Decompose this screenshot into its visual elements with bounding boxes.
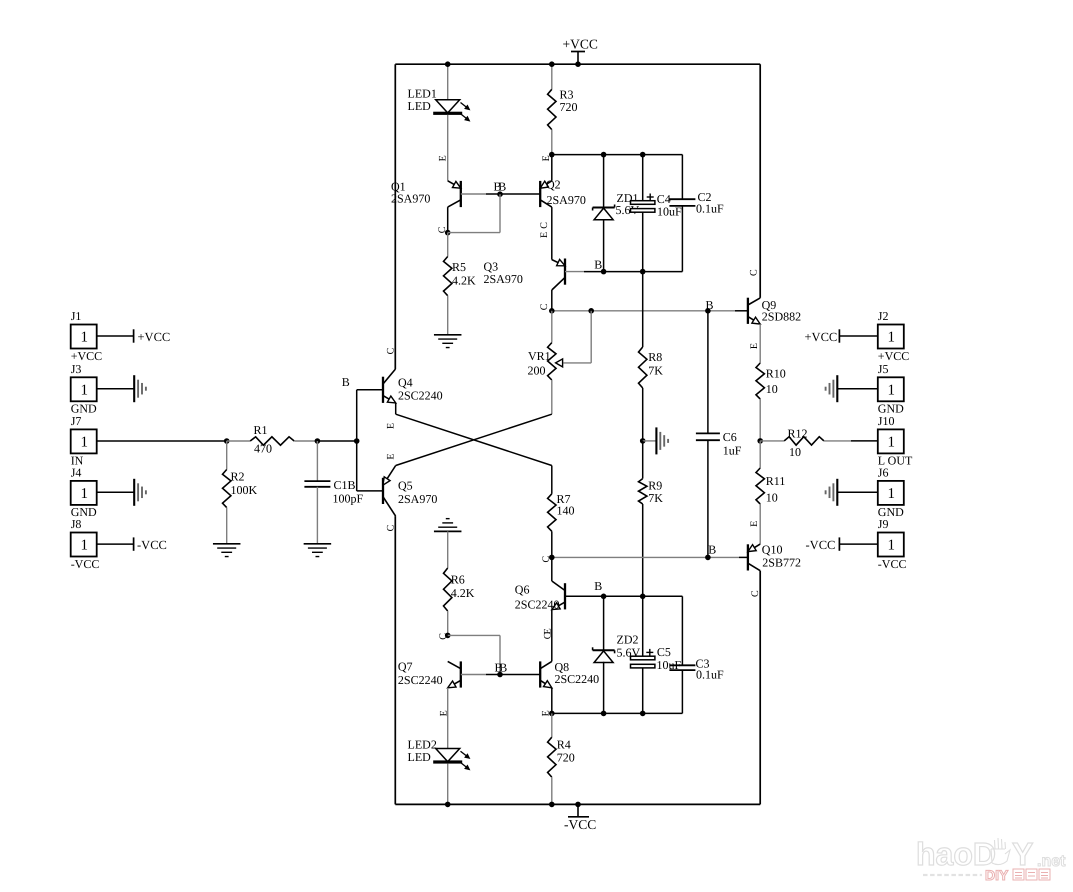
svg-text:R2: R2 <box>231 470 245 484</box>
node ZD2 bottom <box>601 711 607 717</box>
connector J8 <box>71 517 100 571</box>
LED LED2 <box>433 749 469 770</box>
svg-text:1: 1 <box>888 434 896 450</box>
transistor Q2 2SA970 <box>540 181 552 207</box>
node Q3 collector / VR1 top <box>549 308 555 314</box>
wire R6 to Q7 collector node <box>447 611 449 635</box>
svg-text:2SC2240: 2SC2240 <box>515 598 560 612</box>
svg-text:Q5: Q5 <box>398 479 413 493</box>
wire node to VR1 <box>551 311 553 343</box>
wire output node to R12 <box>760 440 784 442</box>
resistor R8 7K <box>639 347 647 388</box>
resistor R12 10 <box>784 437 824 445</box>
svg-text:E: E <box>541 710 552 716</box>
wire Q3 base / zener reference bus <box>565 271 584 273</box>
wire base rail (Q4/Q5 bases) <box>356 390 358 491</box>
svg-text:7K: 7K <box>648 491 663 505</box>
resistor R4 720 <box>548 737 556 777</box>
node R3 top <box>549 61 555 67</box>
svg-text:E: E <box>385 454 396 460</box>
wire LED1 cathode to Q1 emitter <box>447 115 449 181</box>
node Q8 emitter/R4 <box>549 711 555 717</box>
wire R3 to VCC sub-bus <box>551 130 553 155</box>
svg-text:E: E <box>749 521 760 527</box>
svg-text:100pF: 100pF <box>333 492 364 506</box>
svg-text:1: 1 <box>80 434 88 450</box>
ground above R6 <box>434 519 462 532</box>
svg-text:B: B <box>594 258 602 272</box>
svg-text:4.2K: 4.2K <box>452 274 476 288</box>
node LED2 bottom <box>445 802 451 808</box>
svg-text:2SC2240: 2SC2240 <box>555 672 600 686</box>
svg-text:2SC2240: 2SC2240 <box>398 389 443 403</box>
resistor R11 10 <box>756 468 764 504</box>
wire to R1 <box>227 440 251 442</box>
zener diode ZD1 5.6V <box>593 205 615 220</box>
wire R12 to J10 <box>824 440 851 442</box>
node C6 bottom <box>705 555 711 561</box>
wire ZD2 top lead <box>603 596 605 650</box>
svg-text:+VCC: +VCC <box>805 330 838 344</box>
wire Q1 base to Q2 base (node B) <box>461 193 486 195</box>
wire crossover diagonal VR1 to Q5 emitter <box>396 414 552 465</box>
transistor Q8 2SC2240 <box>540 661 552 687</box>
svg-text:C: C <box>539 303 550 310</box>
wire +VCC bus to R3 <box>551 64 553 89</box>
svg-text:.net: .net <box>1037 853 1066 870</box>
node C1 top <box>315 438 321 444</box>
ground at J6 <box>826 479 838 506</box>
capacitor C4 10uF electrolytic <box>631 155 655 272</box>
wire R2 to ground <box>226 508 228 544</box>
svg-text:B: B <box>498 180 506 194</box>
wire J4 to ground <box>97 491 135 493</box>
svg-text:1: 1 <box>80 486 88 502</box>
wire J8 to -VCC terminal <box>97 543 134 545</box>
wire C1 node to base rail <box>317 440 356 442</box>
node R2 top <box>224 438 230 444</box>
svg-text:0.1uF: 0.1uF <box>696 202 724 216</box>
LED LED1 <box>433 100 469 121</box>
node base rail <box>354 438 360 444</box>
wire Q3 collector stub <box>551 290 553 311</box>
wire ground stub <box>643 440 657 442</box>
svg-text:7K: 7K <box>648 364 663 378</box>
zener diode ZD2 5.6V <box>593 647 615 662</box>
svg-text:VR1: VR1 <box>528 349 551 363</box>
transistor Q1 2SA970 <box>448 181 461 207</box>
potentiometer VR1 200 <box>548 311 592 380</box>
svg-text:0.1uF: 0.1uF <box>696 668 724 682</box>
svg-text:10: 10 <box>766 382 778 396</box>
ground below R2 <box>213 544 241 557</box>
wire R10 to output node <box>759 399 761 441</box>
wire J1 to +VCC terminal <box>97 335 134 337</box>
wire right rail upper (Q9 collector to +VCC bus) <box>759 64 761 298</box>
svg-text:C: C <box>438 633 449 640</box>
wire Q8 emitter bus <box>552 712 683 714</box>
connector J4 <box>71 466 97 520</box>
node R7/Q6 collector <box>549 555 555 561</box>
svg-text:1uF: 1uF <box>723 444 742 458</box>
wire left rail lower (Q5 collector to -VCC bus) <box>394 516 396 804</box>
connector J9 <box>878 517 907 571</box>
svg-text:R1: R1 <box>254 423 268 437</box>
svg-text:1: 1 <box>80 330 88 346</box>
svg-text:Q4: Q4 <box>398 376 413 390</box>
svg-text:J9: J9 <box>878 517 889 531</box>
svg-text:B: B <box>706 298 714 312</box>
wire J7 input line <box>97 440 227 442</box>
svg-text:+VCC: +VCC <box>563 36 598 51</box>
terminal bar +VCC (J1) <box>133 329 135 342</box>
wire Q2 collector to Q3 emitter <box>551 207 553 260</box>
wire R5 to ground <box>447 296 449 335</box>
svg-text:LED: LED <box>408 750 432 764</box>
wire crossover diagonal Q4 emitter to R7 <box>396 414 552 465</box>
svg-text:J10: J10 <box>878 414 895 428</box>
svg-text:C6: C6 <box>723 430 737 444</box>
svg-text:Q7: Q7 <box>398 660 413 674</box>
ground at J4 <box>134 479 146 506</box>
ground below C1 <box>304 544 332 557</box>
svg-text:E: E <box>437 155 448 161</box>
node ZD2 top <box>601 594 607 600</box>
wire node to R9 <box>642 441 644 479</box>
power symbol +VCC top <box>563 36 598 64</box>
node C4 negative <box>640 269 646 275</box>
svg-text:R5: R5 <box>452 260 466 274</box>
svg-text:J2: J2 <box>878 309 889 323</box>
wire Q7 base to Q8 base <box>461 674 486 676</box>
wire R8 to ground node <box>642 388 644 441</box>
svg-text:J8: J8 <box>71 517 82 531</box>
transistor Q7 2SC2240 <box>448 661 461 687</box>
wire J2 to +VCC terminal <box>839 335 877 337</box>
wire Q7 emitter to LED2 <box>447 688 449 749</box>
wire Q8 emitter stub <box>551 688 553 714</box>
node ZD1 anode <box>601 269 607 275</box>
wire R1 to C1 node <box>294 440 317 442</box>
connector J5 <box>878 362 904 416</box>
svg-text:-VCC: -VCC <box>564 817 596 832</box>
svg-text:B: B <box>342 375 350 389</box>
node B (Q7/Q8 bases) <box>497 672 503 678</box>
node Q1 collector/base tie <box>445 230 451 236</box>
connector J3 <box>71 362 97 416</box>
wire J6 to ground <box>837 491 878 493</box>
resistor R5 <box>444 257 452 296</box>
svg-text:100K: 100K <box>231 483 258 497</box>
svg-text:J5: J5 <box>878 362 889 376</box>
svg-text:200: 200 <box>528 364 546 378</box>
svg-text:C: C <box>543 632 554 639</box>
wire output node to R11 <box>759 441 761 468</box>
ground at J3 <box>134 375 146 402</box>
wire +VCC bus to LED1 <box>447 64 449 100</box>
watermark haoDIY.net logo <box>916 836 1066 883</box>
svg-text:C: C <box>385 347 396 354</box>
svg-text:-VCC: -VCC <box>137 538 167 552</box>
svg-text:2SA970: 2SA970 <box>547 193 586 207</box>
svg-text:2SC2240: 2SC2240 <box>398 673 443 687</box>
resistor R10 10 <box>756 363 764 399</box>
node VR1 wiper tap <box>588 308 594 314</box>
capacitor C1 100pF <box>304 441 330 544</box>
svg-text:DIY: DIY <box>985 867 1009 883</box>
node output (R10/R11/R12) <box>757 438 763 444</box>
wire J9 to -VCC terminal <box>839 543 877 545</box>
transistor Q6 2SC2240 <box>552 581 565 610</box>
svg-text:C5: C5 <box>657 645 671 659</box>
svg-text:2SA970: 2SA970 <box>398 492 437 506</box>
svg-text:4.2K: 4.2K <box>451 586 475 600</box>
connector J10 <box>878 414 913 468</box>
resistor R3 <box>548 89 556 129</box>
wire Q5 base <box>357 490 383 492</box>
node +VCC stub <box>575 61 581 67</box>
wire Q1 collector to R5 node <box>447 207 449 233</box>
wire R7 to C node <box>551 531 553 557</box>
svg-text:1: 1 <box>80 538 88 554</box>
svg-text:R8: R8 <box>648 350 662 364</box>
svg-text:Q10: Q10 <box>762 543 783 557</box>
node R3/Q2/ZD1 top <box>549 152 555 158</box>
capacitor C2 0.1uF <box>669 155 695 272</box>
transistor Q3 2SA970 <box>552 259 565 291</box>
svg-text:R6: R6 <box>451 573 465 587</box>
wire base bus to R8 <box>642 272 644 347</box>
svg-text:haoD: haoD <box>916 836 996 872</box>
wire regulator top bus (node at R3/Q2/ZD1/C4/C2) <box>552 154 683 156</box>
capacitor C5 10uF electrolytic <box>631 596 655 713</box>
svg-text:C: C <box>539 222 550 229</box>
wire Q2 emitter stub <box>551 155 553 181</box>
resistor R7 140 <box>548 494 556 532</box>
wire R11 to Q10 emitter <box>759 504 761 544</box>
svg-text:+VCC: +VCC <box>138 330 171 344</box>
svg-text:J4: J4 <box>71 466 82 480</box>
ground at J5 <box>826 375 838 402</box>
svg-text:B: B <box>708 543 716 557</box>
svg-text:B: B <box>594 579 602 593</box>
resistor R6 4.2K <box>444 568 452 611</box>
wire LED2 to -VCC bus <box>447 764 449 805</box>
svg-text:C: C <box>749 269 760 276</box>
wire right rail lower (Q10 collector to -VCC bus) <box>759 571 761 805</box>
svg-text:2SB772: 2SB772 <box>762 556 801 570</box>
svg-text:1: 1 <box>888 330 896 346</box>
transistor Q5 2SA970 <box>383 466 396 517</box>
ground right of R8/R9 node <box>656 427 668 454</box>
ground below R5 <box>434 335 462 348</box>
wire left rail upper (Q4 collector to +VCC bus) <box>394 64 396 369</box>
connector J6 <box>878 466 904 520</box>
resistor R9 7K <box>639 479 647 504</box>
svg-text:E: E <box>385 423 396 429</box>
wire crossover to R7 <box>551 466 553 494</box>
wire Q6 emitter to Q8 collector <box>551 610 553 662</box>
wire R4 to -VCC bus <box>551 777 553 804</box>
svg-text:C: C <box>750 590 761 597</box>
svg-text:ZD2: ZD2 <box>617 633 639 647</box>
svg-text:R10: R10 <box>766 367 786 381</box>
svg-text:Q6: Q6 <box>515 583 530 597</box>
svg-text:R4: R4 <box>557 738 571 752</box>
svg-text:+VCC: +VCC <box>71 349 102 363</box>
wire J3 to ground <box>97 388 135 390</box>
svg-text:C: C <box>385 524 396 531</box>
wire J5 to ground <box>837 388 878 390</box>
transistor Q9 2SD882 <box>748 298 760 324</box>
power symbol -VCC bottom <box>564 804 596 832</box>
svg-text:E: E <box>749 343 760 349</box>
transistor Q10 2SB772 <box>748 544 760 571</box>
svg-text:10: 10 <box>789 445 801 459</box>
svg-text:-VCC: -VCC <box>806 538 836 552</box>
node R8/R9 ground <box>640 438 646 444</box>
svg-text:2SA970: 2SA970 <box>391 192 430 206</box>
svg-text:1: 1 <box>888 486 896 502</box>
capacitor C3 0.1uF <box>669 596 695 713</box>
wire VR1 bottom to crossover <box>551 380 553 414</box>
svg-text:720: 720 <box>557 751 575 765</box>
svg-text:C1B: C1B <box>334 478 356 492</box>
svg-text:1: 1 <box>80 382 88 398</box>
svg-text:-VCC: -VCC <box>878 557 907 571</box>
node LED1 top <box>445 61 451 67</box>
terminal bar +VCC (J2) <box>838 329 840 342</box>
node R9/C5 top <box>640 594 646 600</box>
svg-text:2SD882: 2SD882 <box>762 310 801 324</box>
node Q7 collector/base tie <box>445 633 451 639</box>
svg-text:720: 720 <box>560 100 578 114</box>
svg-text:2SA970: 2SA970 <box>484 272 523 286</box>
node R4 bottom <box>549 802 555 808</box>
svg-text:LED: LED <box>408 99 432 113</box>
wire Q4 base <box>357 389 383 391</box>
svg-text:+VCC: +VCC <box>878 349 909 363</box>
wire Q4 emitter drop <box>395 403 397 414</box>
node C5 bottom <box>640 711 646 717</box>
wire Q3 collector to Q9 base <box>552 310 735 312</box>
wire ZD2 to emitter bus <box>603 662 605 714</box>
svg-text:R11: R11 <box>766 474 786 488</box>
wire Q1 collector-base feedback loop <box>448 232 500 234</box>
wire Q6 base / zener reference bus lower <box>565 595 682 597</box>
svg-text:Y: Y <box>1012 836 1033 872</box>
svg-text:J1: J1 <box>71 309 82 323</box>
connector J7 <box>71 414 97 468</box>
node -VCC stub <box>575 802 581 808</box>
capacitor C6 1uF <box>696 311 720 558</box>
svg-text:R12: R12 <box>788 426 808 440</box>
svg-text:C: C <box>541 556 552 563</box>
wire Q6 collector stub <box>551 557 553 581</box>
svg-text:J6: J6 <box>878 466 889 480</box>
resistor R1 470 <box>250 437 294 445</box>
wire R2 lead <box>226 441 228 470</box>
wire Q6 collector to Q10 base <box>552 556 739 558</box>
resistor R2 100K <box>223 470 231 508</box>
wire Q7 collector-base feedback loop <box>448 634 500 636</box>
node C6 top <box>705 308 711 314</box>
svg-text:J7: J7 <box>71 414 82 428</box>
wire Q8 emitter node to R4 <box>551 713 553 737</box>
terminal bar -VCC (J9) <box>838 537 840 550</box>
svg-text:470: 470 <box>254 442 272 456</box>
wire ground to R6 <box>447 531 449 568</box>
svg-text:E: E <box>539 232 550 238</box>
terminal bar -VCC (J8) <box>133 537 135 550</box>
wire top +VCC bus <box>395 63 760 65</box>
wire bottom -VCC bus <box>395 803 760 805</box>
svg-text:B: B <box>499 661 507 675</box>
wire Q1 collector node to R5 <box>447 233 449 257</box>
wire R9 to lower base bus (crosses C line) <box>642 504 644 596</box>
node B (Q1/Q2 bases) <box>497 191 503 197</box>
svg-text:1: 1 <box>888 538 896 554</box>
wire ZD1 to base bus <box>603 220 605 272</box>
svg-text:J3: J3 <box>71 362 82 376</box>
wire Q9 emitter to R10 <box>759 324 761 363</box>
connector J1 <box>71 309 102 363</box>
transistor Q4 2SC2240 <box>383 369 396 403</box>
svg-text:Q2: Q2 <box>546 178 561 192</box>
svg-text:140: 140 <box>557 504 575 518</box>
wire sub-bus to ZD1 <box>603 155 605 208</box>
connector J2 <box>878 309 909 363</box>
svg-text:10: 10 <box>766 491 778 505</box>
svg-text:1: 1 <box>888 382 896 398</box>
svg-text:-VCC: -VCC <box>71 557 100 571</box>
